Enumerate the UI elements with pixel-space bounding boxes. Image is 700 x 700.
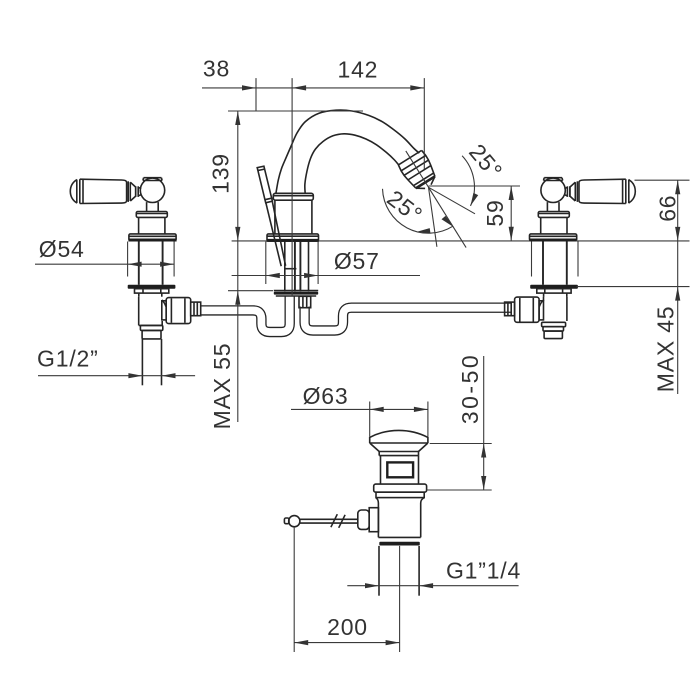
waste upper body with overflow window (381, 456, 419, 485)
spout body rim (273, 193, 313, 200)
locknut (135, 289, 169, 293)
bonnet base flange (128, 234, 176, 241)
spout body cylinder (275, 200, 312, 234)
left valve assembly (upper) (70, 178, 176, 293)
bonnet body (139, 217, 165, 234)
lever grip cylinder (70, 179, 126, 203)
dia 57 dimension (232, 273, 420, 278)
waste tailpipe G1 1/4 (379, 546, 419, 596)
waste centerline (399, 546, 401, 652)
waste lower body (376, 498, 424, 538)
under-bonnet column tube (139, 242, 163, 285)
bonnet top flange (136, 212, 167, 218)
svg-text:59: 59 (482, 199, 508, 226)
outlet stub below washer (299, 296, 311, 307)
svg-text:Ø54: Ø54 (39, 236, 85, 262)
svg-text:30-50: 30-50 (457, 353, 483, 424)
elbow body (139, 297, 166, 326)
right valve assembly (mirror of left) (529, 178, 635, 293)
svg-text:Ø57: Ø57 (334, 248, 380, 274)
G1/2 inlet tube (141, 339, 143, 385)
flange extension stubs (dia 57 reference) (266, 242, 318, 284)
G1/2 dimension (38, 373, 195, 378)
lever top extension line (635, 179, 690, 181)
vertical dimension line 139 / MAX 55 (235, 111, 240, 422)
200 dimension (294, 640, 399, 645)
escutcheon extension stubs (dia 54 reference) (128, 242, 175, 277)
spout top extension line (228, 110, 363, 112)
lever neck and collar (128, 181, 141, 202)
lever shaft into spout base (266, 202, 297, 269)
nozzle ray at -82 deg (429, 187, 437, 247)
spout washer extension line (228, 290, 273, 292)
vertical dimension line 66 / MAX 45 (675, 180, 680, 394)
nozzle horizontal reference line (429, 185, 521, 187)
svg-text:142: 142 (338, 56, 379, 82)
right washer extension line (577, 286, 690, 288)
outlet thread rings (542, 322, 566, 326)
pull rod with break symbol (300, 514, 358, 528)
top dimension line 38 / 142 (202, 78, 424, 296)
rod drop extension line (293, 527, 295, 652)
waste flange (374, 484, 427, 498)
flexible hose from left valve to spout (200, 295, 290, 333)
svg-text:38: 38 (203, 56, 230, 82)
pull-rod side port (358, 508, 379, 532)
waste thread ring (378, 537, 420, 545)
nozzle axis centerline (406, 151, 429, 188)
base washer plate (128, 285, 176, 289)
spout tube outer curve (276, 110, 419, 193)
swivel lever paddle (257, 166, 272, 203)
hose ferrule (191, 302, 201, 316)
ball joint (140, 178, 164, 203)
svg-text:139: 139 (208, 153, 234, 194)
elbow boss (162, 301, 166, 320)
threaded shank below flange (285, 242, 309, 292)
elbow hex nut (166, 298, 191, 324)
nozzle axis ray at -58 deg (429, 187, 467, 247)
flexible hose from right valve to spout (305, 306, 512, 331)
nozzle ray at -30 deg (429, 187, 476, 214)
lower angle arc 25 deg (383, 189, 454, 233)
svg-text:G1”1/4: G1”1/4 (446, 558, 521, 584)
svg-text:Ø63: Ø63 (303, 383, 349, 409)
inlet thread rings (140, 325, 162, 330)
svg-text:200: 200 (327, 614, 368, 640)
dia 63 dimension (291, 402, 428, 437)
svg-text:MAX 45: MAX 45 (653, 306, 679, 393)
spout washer plate (274, 291, 318, 296)
vertical dimension line 59 (509, 186, 514, 241)
right valve under-deck body and side elbow (505, 293, 567, 339)
hose ferrule (505, 302, 515, 316)
pop-up waste cap (mushroom dome) (370, 430, 428, 455)
supply body tube (543, 293, 545, 297)
G1 1/4 dimension (347, 583, 518, 588)
svg-text:G1/2”: G1/2” (37, 345, 99, 371)
dia 54 dimension (35, 262, 174, 267)
deck reference line (232, 240, 690, 242)
aerator nozzle (ribbed, angled 58deg) (394, 143, 442, 196)
left valve under-deck body and side elbow (139, 293, 201, 385)
svg-text:66: 66 (655, 195, 681, 222)
svg-text:MAX 55: MAX 55 (209, 343, 235, 430)
pull rod ball end (284, 516, 300, 527)
elbow body (539, 297, 567, 321)
valve stem (147, 202, 159, 211)
upper angle arc 25 deg (462, 156, 478, 206)
spout base flange (267, 234, 320, 241)
elbow boss (539, 301, 543, 320)
spout tube inner curve (305, 134, 399, 194)
30-50 dimension (427, 356, 492, 490)
supply body tube (138, 293, 140, 297)
elbow hex nut (515, 297, 540, 322)
